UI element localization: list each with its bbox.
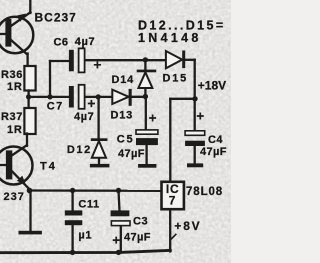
svg-text:237: 237 [4, 191, 25, 203]
svg-text:C5: C5 [117, 134, 135, 146]
svg-text:C4: C4 [208, 134, 223, 146]
svg-text:+18V: +18V [198, 79, 226, 93]
svg-text:4µ7: 4µ7 [75, 36, 95, 48]
svg-text:1R: 1R [7, 124, 23, 136]
svg-text:47µF: 47µF [124, 231, 151, 243]
svg-text:4µ7: 4µ7 [74, 111, 94, 123]
svg-text:C7: C7 [47, 101, 64, 113]
svg-text:T4: T4 [40, 160, 57, 172]
svg-text:D15: D15 [163, 73, 189, 85]
svg-text:1N4148: 1N4148 [138, 31, 202, 45]
svg-text:D13: D13 [111, 109, 134, 121]
svg-text:C11: C11 [78, 199, 99, 211]
svg-text:µ1: µ1 [78, 230, 92, 242]
svg-text:+8V: +8V [174, 219, 201, 233]
svg-text:C3: C3 [133, 216, 148, 228]
svg-text:D12: D12 [67, 144, 92, 156]
svg-text:47µF: 47µF [118, 148, 145, 160]
svg-text:R36: R36 [1, 69, 23, 81]
svg-text:R37: R37 [1, 111, 23, 123]
svg-text:BC237: BC237 [35, 10, 77, 24]
svg-text:C6: C6 [54, 36, 69, 48]
svg-text:7: 7 [169, 193, 177, 207]
svg-text:78L08: 78L08 [186, 186, 223, 198]
svg-text:47µF: 47µF [200, 146, 227, 158]
svg-text:D14: D14 [112, 74, 135, 86]
svg-text:1R: 1R [7, 81, 23, 93]
